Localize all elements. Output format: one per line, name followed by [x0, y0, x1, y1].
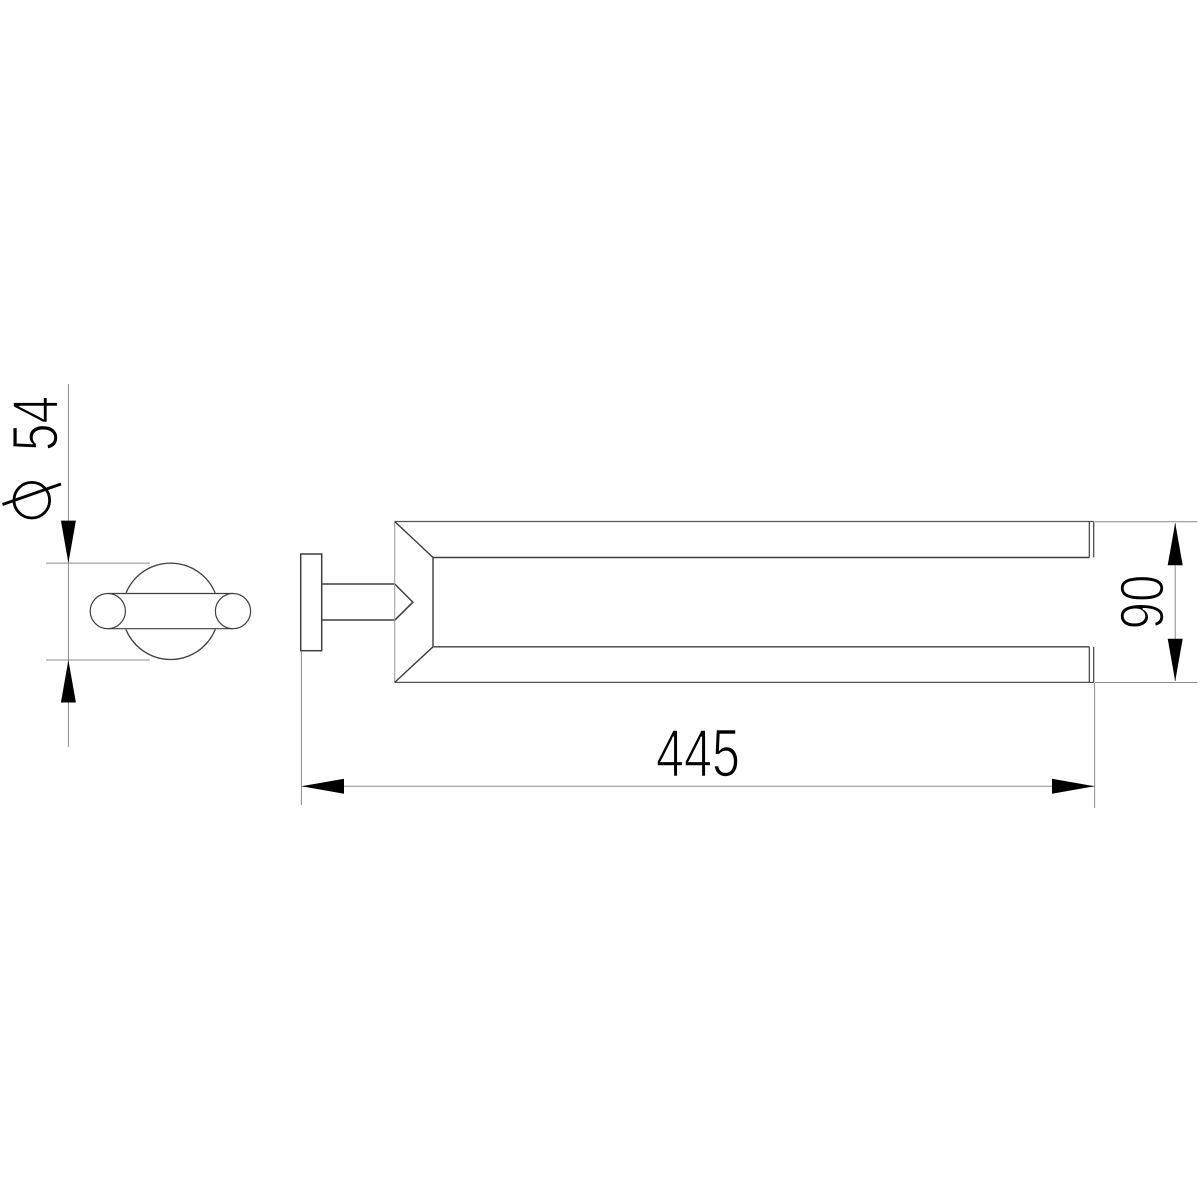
svg-text:54: 54	[0, 396, 72, 451]
fork body: bottom chamfer diagonal	[395, 647, 433, 683]
dimension 90: upper arrowhead	[1168, 523, 1183, 566]
dimension 90: lower arrowhead	[1168, 639, 1183, 682]
dimension 445: right extension line	[1094, 683, 1096, 808]
side view: wall plate rectangle	[301, 554, 322, 651]
fork body: left silhouette edge	[394, 522, 396, 683]
fork body: top chamfer diagonal	[395, 522, 433, 558]
dimension 445: left arrowhead	[302, 779, 345, 794]
dimension 90: lower extension line	[1095, 682, 1198, 684]
side view: pivot cone chevron	[395, 584, 413, 620]
side view: stem top edge	[322, 583, 395, 585]
svg-text:445: 445	[656, 716, 740, 792]
top prong: end cap outer line	[1093, 522, 1095, 558]
dimension Ø54: lower arrowhead	[61, 660, 76, 703]
svg-text:90: 90	[1109, 575, 1178, 630]
dimension Ø54: dimension line	[67, 384, 69, 747]
dimension Ø54: lower extension line	[46, 659, 150, 661]
dimension Ø54: diameter symbol slash	[3, 484, 62, 505]
dimension Ø54: upper arrowhead	[61, 521, 76, 564]
side view: stem bottom edge	[322, 619, 395, 621]
dimension 90: upper extension line	[1095, 521, 1198, 523]
dimension 445: dimension line	[302, 785, 1094, 787]
dimension Ø54: diameter symbol circle	[14, 482, 50, 518]
bottom prong: end cap inner line	[1088, 647, 1090, 683]
fork body: outer top edge	[395, 521, 1094, 523]
fork body: outer bottom edge	[395, 681, 1094, 683]
front view: right rod end cap circle	[215, 594, 250, 629]
front view: rod top edge	[108, 593, 233, 595]
dimension 445: left extension line	[300, 651, 302, 805]
front view: rod bottom edge	[108, 628, 233, 630]
dimension 445: right arrowhead	[1052, 779, 1095, 794]
dimension Ø54: upper extension line	[46, 562, 150, 564]
top prong: end cap inner line	[1088, 522, 1090, 558]
front view: wall-plate circle	[122, 563, 218, 659]
dimension 90: dimension line	[1174, 523, 1176, 681]
fork body: inner top edge	[433, 557, 1089, 559]
bottom prong: end cap outer line	[1093, 647, 1095, 683]
front view: left rod end cap circle	[90, 594, 125, 629]
front view: rod occlusion mask	[108, 593, 233, 629]
fork body: slot base vertical edge	[432, 558, 434, 647]
fork body: inner bottom edge	[433, 646, 1089, 648]
